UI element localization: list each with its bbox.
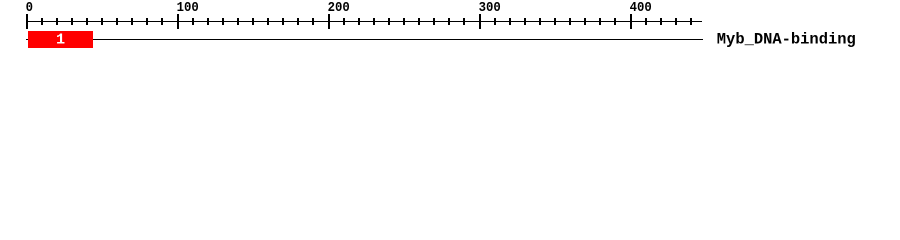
ruler major tick 200 xyxy=(328,14,330,29)
svg-text:400: 400 xyxy=(630,0,652,15)
domain box Myb_DNA-binding 1 xyxy=(28,31,93,48)
ruler label 300 xyxy=(479,0,501,15)
ruler major tick 400 xyxy=(630,14,632,29)
ruler minor ticks xyxy=(41,18,692,25)
svg-text:300: 300 xyxy=(479,0,501,15)
svg-text:100: 100 xyxy=(177,0,199,15)
svg-text:Myb_DNA-binding: Myb_DNA-binding xyxy=(717,31,856,49)
svg-text:200: 200 xyxy=(328,0,350,15)
ruler label 100 xyxy=(177,0,199,15)
ruler major tick 0 xyxy=(26,14,28,29)
ruler label 400 xyxy=(630,0,652,15)
svg-text:1: 1 xyxy=(56,31,65,49)
sequence line xyxy=(26,39,703,40)
svg-text:0: 0 xyxy=(26,0,33,15)
ruler major tick 300 xyxy=(479,14,481,29)
ruler baseline xyxy=(26,21,702,22)
ruler label 0 xyxy=(26,0,33,15)
ruler label 200 xyxy=(328,0,350,15)
ruler major tick 100 xyxy=(177,14,179,29)
